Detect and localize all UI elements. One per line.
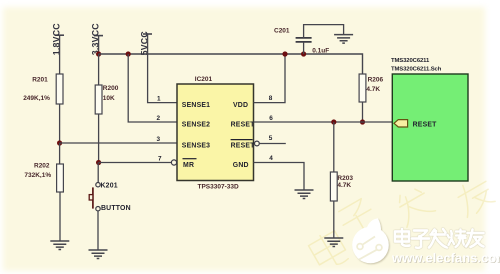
- faint diagonal watermark glyph 4: [452, 174, 497, 218]
- node junction MR: [96, 160, 101, 165]
- ground under GND pin: [295, 190, 314, 199]
- wire 1.8VCC to R201: [59, 35, 61, 74]
- faint diagonal watermark glyph 3: [391, 184, 435, 227]
- wire MR to pin 7 bubble: [99, 162, 172, 164]
- watermark glyph shao: [448, 230, 467, 248]
- faint diagonal watermark glyph 1: [307, 228, 350, 273]
- wire R203 to ground: [333, 201, 335, 238]
- power symbol 5VCC: [139, 31, 152, 56]
- node VDD rail junction: [282, 51, 287, 56]
- svg-text:4.7K: 4.7K: [337, 182, 351, 189]
- wire SENSE3 to pin 3: [60, 142, 177, 144]
- wire SENSE2 to pin 2: [128, 54, 177, 122]
- svg-text:SENSE3: SENSE3: [182, 143, 210, 150]
- svg-text:6: 6: [269, 115, 273, 122]
- pin 7 bubble: [171, 160, 176, 165]
- wire VDD pin 8: [254, 54, 286, 103]
- wire button to ground: [97, 211, 99, 250]
- node R206 junction: [360, 119, 365, 124]
- svg-text:SENSE2: SENSE2: [182, 122, 210, 129]
- svg-text:4: 4: [269, 155, 273, 162]
- svg-text:C201: C201: [274, 28, 290, 35]
- capacitor C201: [296, 38, 312, 42]
- wire node to R203: [333, 122, 335, 172]
- sheet symbol TMS320C6211: [392, 74, 468, 181]
- wire C201 bottom to rail: [303, 42, 305, 54]
- svg-text:4.7K: 4.7K: [366, 86, 380, 93]
- resistor R200: [95, 85, 102, 114]
- watermark logo circle: [352, 218, 389, 263]
- svg-text:K201: K201: [101, 183, 118, 190]
- pin name RESET with overline: [231, 140, 256, 150]
- resistor R206: [359, 74, 366, 102]
- pin 5 bubble: [255, 141, 260, 146]
- wire RESET bar stub: [259, 143, 286, 145]
- wire R206 to reset net: [362, 102, 364, 122]
- svg-text:R202: R202: [34, 163, 50, 170]
- node junction SENSE3: [57, 140, 62, 145]
- svg-text:VDD: VDD: [233, 102, 248, 109]
- svg-text:R206: R206: [368, 77, 384, 84]
- ground under button: [89, 250, 108, 259]
- svg-text:7: 7: [158, 156, 162, 163]
- pin name MR with overline: [183, 159, 197, 169]
- wire C201 top to ground: [304, 25, 344, 38]
- wire R200 to node: [98, 114, 100, 163]
- svg-text:TMS320C6211: TMS320C6211: [391, 58, 430, 64]
- svg-text:2: 2: [157, 115, 161, 122]
- power symbol 1.8VCC: [51, 23, 64, 55]
- svg-text:IC201: IC201: [195, 76, 213, 83]
- svg-text:10K: 10K: [103, 95, 115, 102]
- svg-text:0.1uF: 0.1uF: [312, 47, 329, 54]
- svg-text:RESET: RESET: [231, 122, 256, 129]
- svg-text:3: 3: [157, 136, 161, 143]
- svg-text:R200: R200: [103, 85, 119, 92]
- node 3.3VCC rail junction: [96, 51, 101, 56]
- ground under R203: [324, 238, 343, 247]
- svg-text:TMS320C6211.Sch: TMS320C6211.Sch: [391, 67, 442, 73]
- watermark glyph dian: [395, 229, 410, 246]
- watermark url www.elecfans.com: [391, 250, 500, 266]
- svg-text:TPS3307-33D: TPS3307-33D: [198, 184, 239, 191]
- svg-text:MR: MR: [183, 162, 194, 169]
- node junction SENSE2: [126, 51, 131, 56]
- watermark glyph zi: [412, 231, 429, 248]
- svg-text:SENSE1: SENSE1: [182, 102, 210, 109]
- svg-text:8: 8: [269, 95, 273, 102]
- watermark glyph you: [466, 230, 484, 248]
- svg-text:R201: R201: [32, 77, 48, 84]
- svg-text:5: 5: [269, 135, 273, 142]
- resistor R202: [57, 164, 64, 192]
- wire GND pin 4: [254, 163, 305, 191]
- button K201: [89, 183, 100, 211]
- svg-text:RESET: RESET: [231, 143, 256, 150]
- watermark glyph fa: [429, 229, 447, 248]
- ground near C201: [334, 35, 353, 44]
- wire RESET pin 6 to port: [254, 121, 393, 123]
- svg-text:GND: GND: [233, 162, 249, 169]
- svg-text:732K,1%: 732K,1%: [24, 172, 51, 179]
- svg-text:BUTTON: BUTTON: [101, 205, 131, 212]
- svg-text:249K,1%: 249K,1%: [23, 95, 50, 102]
- wire 3.3VCC to rail: [98, 36, 100, 54]
- op-amp supervisor IC201 body: [177, 84, 254, 181]
- svg-text:1: 1: [157, 96, 161, 103]
- power symbol 3.3VCC: [90, 23, 103, 55]
- wire node to R202: [59, 143, 61, 164]
- wire R202 to ground: [59, 192, 61, 241]
- wire R201 to node: [59, 104, 61, 143]
- faint diagonal watermark glyph 2: [336, 197, 379, 240]
- ground under R202: [50, 241, 69, 250]
- node C201 rail junction: [301, 51, 306, 56]
- wire 5VCC to SENSE1: [148, 34, 177, 103]
- resistor R203: [330, 172, 337, 201]
- resistor R201: [56, 74, 63, 104]
- wire rail to R200: [98, 54, 100, 85]
- wire node to button: [97, 163, 99, 183]
- wire VDD rail: [99, 54, 363, 74]
- node R203 junction: [331, 119, 336, 124]
- svg-text:www.elecfans.com: www.elecfans.com: [391, 250, 500, 265]
- port RESET tag: [394, 120, 408, 127]
- svg-text:RESET: RESET: [413, 121, 438, 128]
